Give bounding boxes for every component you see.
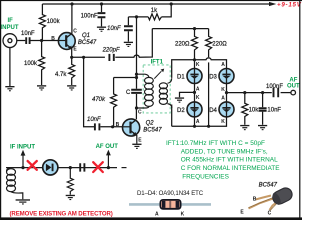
AF OUT terminal	[291, 90, 296, 95]
svg-text:10nF: 10nF	[21, 31, 35, 37]
svg-text:B: B	[116, 122, 120, 128]
capacitor 10nF out stem	[262, 93, 264, 125]
svg-text:A: A	[196, 119, 200, 125]
note text IFT1	[166, 140, 280, 180]
wire radio row	[6, 167, 117, 169]
svg-text:BC547: BC547	[143, 128, 162, 134]
capacitor 100nF decoupling stem	[101, 4, 103, 26]
svg-text:C: C	[126, 90, 131, 96]
svg-text:10nF: 10nF	[267, 108, 281, 114]
ground 4.7k	[67, 85, 76, 90]
svg-text:D2: D2	[177, 108, 185, 114]
svg-text:4.7k: 4.7k	[55, 72, 67, 78]
ground 10nF out	[258, 125, 267, 130]
svg-text:INPUT: INPUT	[1, 25, 19, 31]
resistor R 4.7k	[69, 57, 75, 85]
diode D1	[187, 68, 202, 84]
svg-text:C: C	[73, 29, 77, 35]
svg-text:OUT: OUT	[287, 84, 300, 90]
svg-text:BC547: BC547	[78, 40, 97, 46]
svg-text:D1: D1	[177, 74, 185, 80]
svg-text:220Ω: 220Ω	[175, 41, 190, 47]
wire AF row	[227, 92, 272, 94]
svg-text:E: E	[138, 137, 142, 143]
capacitor 100nF decoupling plates	[98, 13, 106, 17]
pictorial BC547 legs	[249, 196, 278, 211]
wire D3 D4 vertical	[226, 68, 228, 118]
wire 220 ohm rail	[152, 28, 208, 30]
ground radio resistor	[66, 195, 75, 200]
wire tank vertical	[135, 17, 137, 119]
transistor Q1 collector lead	[66, 4, 72, 38]
svg-text:IFT1: IFT1	[151, 59, 164, 65]
svg-text:1k: 1k	[151, 8, 158, 14]
wire 10nF2 to Q2 base	[100, 126, 122, 128]
capacitor 100nF out plates	[274, 88, 279, 97]
svg-text:C FOR NORMAL INTERMEDIATE: C FOR NORMAL INTERMEDIATE	[181, 165, 281, 172]
wire 1k right lead up to rail	[161, 4, 171, 17]
svg-text:A: A	[221, 62, 225, 68]
ground D1 D2 junction	[175, 97, 184, 102]
ground 10k out	[240, 125, 249, 130]
svg-text:100k: 100k	[24, 61, 38, 67]
capacitor 10nF input left lead	[12, 40, 25, 42]
svg-text:OR 455kHz IFT WITH INTERNAL: OR 455kHz IFT WITH INTERNAL	[181, 157, 278, 164]
resistor R 10k	[242, 93, 248, 125]
svg-text:D1–D4: OA90,1N34 ETC: D1–D4: OA90,1N34 ETC	[137, 190, 204, 197]
svg-text:470k: 470k	[92, 97, 106, 103]
resistor R 470k	[111, 78, 117, 127]
pictorial diode body	[160, 200, 180, 209]
svg-text:10nF: 10nF	[87, 117, 101, 123]
svg-text:B: B	[253, 197, 257, 203]
IFT1 dashed box	[143, 65, 170, 113]
resistor R 220 ohm right	[206, 29, 212, 58]
capacitor 10nF out plates	[259, 108, 267, 111]
radio input coil	[7, 168, 23, 200]
AM detector diode circle	[43, 160, 58, 175]
svg-text:C: C	[138, 109, 142, 115]
K A pin labels bridge	[196, 62, 225, 125]
wire secondary bottom	[171, 105, 173, 127]
resistor R 100k lower	[39, 41, 45, 86]
wire bridge top with hop	[172, 58, 227, 78]
diode D2	[187, 102, 202, 118]
svg-text:D3: D3	[209, 74, 217, 80]
capacitor C tank plates	[131, 90, 142, 93]
svg-text:10nF: 10nF	[107, 26, 121, 32]
svg-text:AF OUT: AF OUT	[96, 144, 119, 150]
svg-text:Q2: Q2	[146, 120, 155, 126]
capacitor 10nF2 plates	[95, 123, 100, 130]
svg-text:K: K	[196, 62, 200, 68]
diode D3	[219, 68, 234, 84]
resistor R 1k	[148, 14, 161, 20]
svg-text:FREQUENCIES: FREQUENCIES	[182, 173, 229, 180]
IF input connector ground line	[9, 48, 11, 86]
svg-text:C: C	[268, 210, 272, 216]
wire D1 D2 junction ground stub	[180, 92, 195, 97]
svg-text:IF INPUT: IF INPUT	[10, 145, 35, 151]
power arrow +9-15V	[269, 2, 276, 6]
svg-text:K: K	[221, 87, 225, 93]
svg-text:IFT1:: IFT1:	[166, 140, 181, 147]
IFT1 tuning arrow	[154, 71, 161, 78]
pictorial diode lead	[129, 203, 211, 206]
transistor Q1 emitter lead	[66, 44, 72, 57]
pictorial BC547 body	[271, 186, 295, 206]
wire 220pF right with hop over collector line	[115, 29, 152, 58]
svg-text:A: A	[155, 211, 159, 217]
resistor R 220 ohm left	[192, 29, 198, 60]
ground 100k lower	[37, 85, 46, 90]
capacitor 10nF input plates	[26, 37, 278, 171]
svg-text:K: K	[196, 95, 200, 101]
IF input connector	[3, 34, 17, 48]
svg-text:100k: 100k	[47, 19, 61, 25]
ground 100nF decoupling	[97, 27, 106, 32]
wire middle vertical to bottom rail	[208, 62, 210, 126]
wire D1 vertical	[194, 60, 196, 127]
node dots radio	[21, 166, 110, 169]
svg-text:E: E	[73, 47, 77, 53]
remove X 2	[93, 162, 103, 172]
wire bridge bottom rail	[172, 118, 227, 127]
svg-text:E: E	[240, 209, 244, 215]
IF input pickoff arrow	[22, 155, 24, 168]
svg-text:10.7MHz IFT WITH C = 50pF: 10.7MHz IFT WITH C = 50pF	[181, 140, 265, 147]
IFT1 primary coil	[137, 74, 172, 108]
ground 10nF osc	[124, 42, 133, 47]
wire end dash	[122, 167, 127, 169]
svg-text:220pF: 220pF	[102, 47, 120, 53]
svg-text:100nF: 100nF	[266, 84, 283, 90]
svg-text:(REMOVE EXISTING AM DETECTOR): (REMOVE EXISTING AM DETECTOR)	[10, 210, 113, 217]
node dots	[40, 2, 264, 128]
wire emitter node down to Q2 base cap	[84, 57, 94, 127]
svg-text:10k: 10k	[249, 108, 260, 114]
svg-text:IF: IF	[8, 18, 14, 24]
svg-text:220Ω: 220Ω	[212, 41, 227, 47]
wire tank top node to 10nF top	[128, 16, 148, 18]
svg-text:+9-15V: +9-15V	[277, 2, 302, 9]
radio load resistor	[67, 168, 73, 195]
resistor R 100k upper	[39, 4, 45, 41]
svg-text:B: B	[51, 36, 55, 42]
wire 100nF out to terminal	[281, 92, 291, 94]
wire 470k top to tank	[114, 77, 137, 79]
transistor Q1	[58, 33, 75, 50]
wire Q1 emitter row	[72, 56, 105, 58]
IFT1 secondary coil	[168, 78, 172, 83]
wire 10nF to Q1 base	[30, 40, 58, 42]
capacitor 10nF osc plates	[124, 26, 133, 30]
svg-text:D4: D4	[209, 108, 217, 114]
capacitor 220pF plates	[109, 54, 113, 61]
diode D4	[219, 102, 234, 118]
ground IF input connector	[5, 86, 14, 91]
svg-text:K: K	[181, 211, 185, 217]
ground radio coil	[16, 199, 30, 204]
capacitor 10nF osc stem	[127, 17, 129, 42]
ground Q2 emitter	[132, 144, 141, 149]
svg-text:100nF: 100nF	[81, 14, 98, 20]
AF out feed arrow	[107, 155, 109, 168]
svg-text:Q1: Q1	[82, 33, 90, 39]
svg-text:ADDED, TO TUNE 9MHz IF’s,: ADDED, TO TUNE 9MHz IF’s,	[181, 149, 268, 156]
svg-text:K: K	[221, 119, 225, 125]
transistor Q2	[123, 119, 140, 136]
svg-text:A: A	[196, 86, 200, 92]
svg-text:BC547: BC547	[259, 183, 278, 189]
remove X 1	[28, 161, 103, 172]
svg-text:A: A	[221, 95, 225, 101]
wire top supply rail	[42, 3, 269, 5]
capacitor radio out plates	[80, 163, 84, 171]
